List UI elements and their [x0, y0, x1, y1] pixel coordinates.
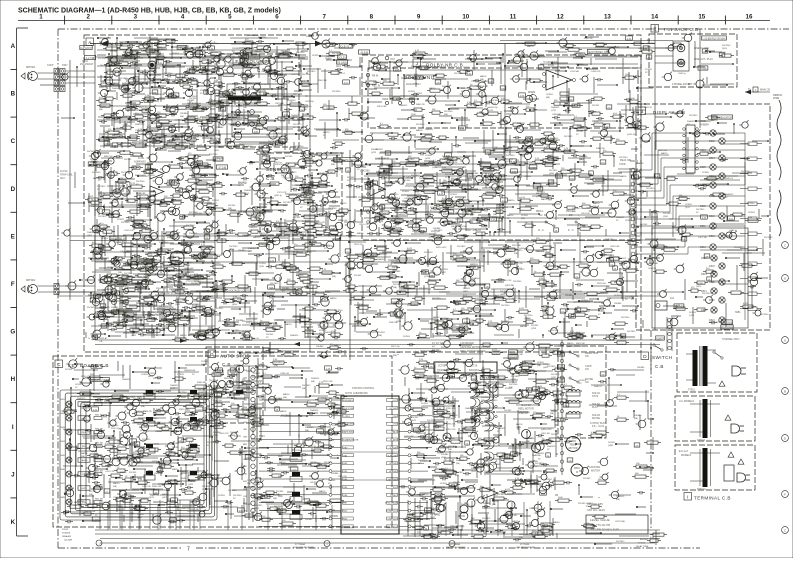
svg-text:MA150: MA150: [113, 482, 120, 485]
resistor: [535, 142, 543, 145]
svg-text:2.2K: 2.2K: [270, 260, 275, 262]
resistor: [436, 74, 444, 77]
CON6 pin: [631, 175, 635, 179]
svg-text:3.3K: 3.3K: [437, 408, 442, 410]
node: [115, 279, 117, 281]
capacitor: [345, 64, 347, 67]
wire: [144, 69, 146, 81]
motor connector pin: [560, 393, 563, 396]
svg-text:R540 1µ: R540 1µ: [434, 417, 442, 419]
node: [373, 62, 375, 64]
svg-text:2SC2240: 2SC2240: [178, 392, 187, 394]
node: [521, 147, 523, 149]
IC701 pin name boxes: [343, 399, 354, 402]
resistor: [613, 115, 621, 118]
svg-text:K: K: [11, 519, 16, 526]
svg-text:1S1555: 1S1555: [177, 374, 185, 376]
wire: [98, 116, 130, 118]
resistor: [257, 102, 267, 105]
wire: [163, 304, 165, 328]
svg-text:MA150: MA150: [246, 145, 253, 148]
resistor: [154, 201, 162, 204]
bus junction arrows: [180, 339, 186, 343]
vertical bus x95: [94, 44, 96, 341]
svg-text:2SC1815: 2SC1815: [293, 124, 302, 126]
svg-text:MA150: MA150: [516, 423, 523, 426]
wire: [378, 170, 380, 192]
transistor: [129, 78, 136, 85]
wire: [405, 204, 407, 214]
svg-text:2SD880: 2SD880: [392, 267, 400, 269]
svg-text:6.8K: 6.8K: [248, 115, 253, 117]
wire: [413, 211, 446, 213]
terminal block lower outline: [675, 445, 755, 490]
pin jack level box: [702, 36, 727, 40]
transformer FT551 secondary: [703, 346, 708, 386]
node: [497, 133, 499, 135]
dolby top wires: [370, 61, 500, 63]
svg-text:2SC1815: 2SC1815: [627, 331, 636, 333]
wire: [136, 240, 138, 262]
wire: [134, 67, 136, 88]
wire: [622, 58, 624, 84]
transistor: [482, 109, 488, 115]
value label: [90, 298, 96, 302]
svg-text:2SD880: 2SD880: [433, 228, 441, 230]
wire: [284, 133, 286, 150]
resistor: [290, 103, 301, 106]
wire: [136, 53, 138, 70]
wire: [529, 147, 559, 149]
resistor: [219, 94, 228, 97]
svg-text:2SC2240: 2SC2240: [296, 52, 305, 54]
CON6 pin: [631, 182, 635, 186]
capacitor: [416, 189, 418, 192]
wire: [122, 83, 147, 85]
grid row tick: [11, 164, 18, 166]
wire: [351, 96, 353, 103]
wire: [400, 161, 419, 163]
svg-text:MA150: MA150: [637, 162, 644, 165]
wire: [427, 205, 429, 218]
wire: [630, 55, 641, 57]
node: [456, 119, 458, 121]
svg-text:2.2K: 2.2K: [521, 197, 526, 199]
border chain bottom right: [196, 547, 700, 549]
resistor: [425, 135, 432, 138]
wire: [163, 127, 165, 148]
svg-text:1S1555: 1S1555: [247, 480, 255, 482]
wire: [212, 189, 214, 197]
resistor: [407, 211, 415, 214]
wire: [334, 47, 352, 49]
wire: [88, 294, 116, 296]
resistor: [202, 120, 212, 123]
node: [295, 54, 297, 56]
svg-text:RB2 10K: RB2 10K: [95, 414, 104, 416]
wire: [595, 179, 622, 181]
svg-text:100K: 100K: [277, 143, 282, 145]
wire: [104, 164, 106, 183]
resistor: [576, 53, 585, 56]
resistor: [443, 204, 454, 207]
capacitor: [244, 51, 246, 54]
wire: [170, 243, 200, 245]
svg-text:2SC1815: 2SC1815: [97, 186, 106, 188]
wire: [299, 64, 301, 70]
svg-text:1S1555: 1S1555: [75, 384, 83, 386]
capacitor: [368, 196, 370, 199]
capacitor: [134, 166, 136, 169]
transistor: [498, 160, 506, 168]
wire: [621, 109, 646, 111]
CON6 pin: [631, 196, 635, 200]
svg-text:T-PRG: T-PRG: [343, 416, 350, 418]
mute detector bus: [95, 261, 640, 263]
wire: [166, 104, 168, 111]
keyboard bottom drops: [107, 505, 109, 530]
svg-text:Q517: Q517: [685, 207, 691, 209]
block letter D: [641, 352, 649, 360]
svg-text:2SC1815: 2SC1815: [547, 292, 556, 294]
line in bus wire: [500, 40, 673, 42]
svg-text:R475 0.022: R475 0.022: [436, 247, 447, 249]
resistor: [593, 178, 604, 181]
svg-text:R524 100K: R524 100K: [156, 288, 167, 290]
wire: [230, 37, 260, 39]
node: [151, 86, 153, 88]
wire: [270, 65, 272, 74]
wire: [107, 185, 124, 187]
bottom harness wire 4: [100, 542, 655, 544]
block letter G: [208, 350, 216, 358]
wire: [104, 237, 106, 256]
capacitor: [485, 208, 487, 211]
wire: [234, 114, 243, 116]
svg-text:0.022: 0.022: [118, 178, 124, 180]
svg-text:2SC945: 2SC945: [491, 100, 499, 102]
svg-text:2SC1815: 2SC1815: [616, 541, 625, 543]
IC701 pin 1 left: [332, 399, 341, 401]
svg-text:1S1555: 1S1555: [149, 93, 157, 95]
svg-text:2SC945: 2SC945: [276, 491, 284, 493]
warning triangle t1: [728, 452, 734, 457]
node: [147, 100, 149, 102]
svg-text:C667 33K: C667 33K: [275, 103, 285, 105]
transistor QY04: [507, 501, 515, 509]
keyboard LED D847: [66, 485, 72, 491]
resistor: [157, 251, 166, 254]
transistor: [125, 171, 132, 178]
svg-text:3.3K: 3.3K: [176, 297, 181, 299]
wire: [478, 179, 496, 181]
capacitor: [99, 176, 101, 179]
wire: [186, 108, 198, 110]
svg-text:2SC2240: 2SC2240: [509, 384, 518, 386]
value label: [112, 143, 118, 147]
value label: [157, 60, 164, 64]
capacitor: [258, 98, 260, 101]
connector CON8: [54, 284, 59, 289]
capacitor: [634, 111, 636, 114]
FT301J wires: [690, 403, 703, 405]
capacitor: [209, 61, 211, 64]
svg-text:3CT700BL: 3CT700BL: [520, 544, 530, 546]
wire: [400, 95, 432, 97]
svg-text:15: 15: [698, 14, 705, 21]
svg-text:1S1555: 1S1555: [546, 94, 554, 96]
wire: [375, 158, 397, 160]
resistor: [120, 46, 128, 49]
wire: [151, 42, 153, 53]
svg-text:2SD880: 2SD880: [216, 127, 224, 129]
svg-text:(9B): (9B): [99, 109, 103, 111]
svg-text:C549 4.7K: C549 4.7K: [236, 112, 246, 114]
svg-text:1S1555: 1S1555: [425, 155, 433, 157]
wire: [302, 113, 304, 136]
warning triangle t2: [738, 459, 744, 464]
capacitor: [352, 43, 354, 46]
svg-text:Q493 33K: Q493 33K: [505, 285, 515, 287]
capacitor: [434, 207, 436, 210]
resistor: [106, 47, 117, 50]
svg-text:6.8K: 6.8K: [254, 131, 259, 133]
svg-text:100K: 100K: [269, 287, 274, 289]
svg-text:100K: 100K: [302, 114, 307, 116]
node: [288, 116, 290, 118]
circled net B: [782, 388, 789, 395]
svg-text:VDD: VDD: [392, 416, 397, 418]
IC701 pin 25 right: [399, 454, 408, 456]
wire: [570, 145, 591, 147]
capacitor: [194, 66, 196, 69]
svg-text:D848: D848: [60, 497, 66, 499]
logic gate U7-1: [470, 388, 480, 397]
svg-text:2SD880: 2SD880: [634, 415, 642, 417]
svg-text:0.1: 0.1: [574, 116, 578, 118]
wire: [204, 166, 213, 168]
wire: [249, 95, 272, 97]
wire: [106, 137, 130, 139]
grid row tick: [11, 211, 18, 213]
keyboard LED D842: [66, 415, 72, 421]
svg-text:R512 47µ: R512 47µ: [111, 428, 121, 430]
leaf switch D955: [569, 351, 571, 353]
svg-text:R992 1µ: R992 1µ: [211, 43, 219, 45]
svg-text:0.022: 0.022: [519, 308, 525, 310]
transistor: [197, 203, 204, 210]
wire: [568, 88, 570, 113]
IC701 right pin harness: [411, 399, 424, 401]
node: [470, 58, 472, 60]
value label: [156, 123, 162, 127]
value label: [457, 218, 463, 222]
wire: [151, 135, 179, 137]
svg-text:X2: X2: [207, 445, 210, 447]
wire: [194, 300, 215, 302]
wire: [590, 130, 620, 132]
svg-text:2.2K: 2.2K: [415, 430, 420, 432]
svg-text:1S1555: 1S1555: [586, 503, 594, 505]
IC802 pin: [683, 154, 686, 157]
IC701 pin 9 left: [332, 462, 341, 464]
MSRM coil: [530, 95, 537, 102]
value label: [189, 69, 195, 73]
transistor: [548, 135, 554, 141]
CON6 pin: [631, 245, 635, 249]
resistor: [286, 67, 293, 70]
wire: [123, 57, 138, 59]
svg-text:Q709: Q709: [213, 435, 219, 437]
capacitor: [213, 102, 215, 105]
svg-text:HEAD PB/REC AMP: HEAD PB/REC AMP: [587, 51, 609, 54]
wire: [269, 70, 302, 72]
wire: [370, 132, 392, 134]
LED D809: [710, 203, 716, 209]
node: [305, 135, 307, 137]
svg-text:2SA1015: 2SA1015: [526, 437, 535, 440]
keyboard LED D843: [66, 429, 72, 435]
svg-text:2SA1015: 2SA1015: [484, 470, 493, 473]
svg-text:2.2K: 2.2K: [99, 136, 104, 138]
wire: [109, 206, 123, 208]
svg-text:R413 47µ: R413 47µ: [489, 107, 499, 109]
svg-text:2SC2240: 2SC2240: [444, 111, 453, 113]
resistor: [131, 185, 142, 188]
wire: [613, 156, 615, 167]
value label: [646, 55, 652, 59]
leaf switch D957: [569, 377, 571, 379]
op-amp A701: [482, 487, 498, 499]
node: [451, 117, 453, 119]
svg-text:RESET: RESET: [343, 526, 351, 528]
svg-text:(9B): (9B): [331, 164, 335, 166]
resistor: [219, 102, 229, 105]
svg-text:MA150: MA150: [433, 316, 440, 319]
svg-text:Q411: Q411: [471, 281, 477, 283]
resistor: [411, 116, 422, 119]
wire: [389, 172, 421, 174]
wire: [301, 50, 308, 52]
wire: [110, 60, 140, 62]
reverse mode box: [91, 377, 110, 381]
resistor: [414, 76, 423, 79]
wire: [306, 113, 308, 115]
dolby pin VCC: [385, 56, 389, 60]
svg-text:6.8K: 6.8K: [214, 80, 219, 82]
wire: [153, 138, 155, 148]
svg-text:2SC1815: 2SC1815: [623, 261, 632, 263]
svg-text:(9B): (9B): [593, 206, 597, 208]
capacitor: [219, 106, 221, 109]
transistor: [182, 191, 189, 198]
wire: [132, 141, 161, 143]
svg-text:2SA1015: 2SA1015: [207, 131, 216, 134]
capacitor: [502, 174, 504, 177]
wire: [122, 90, 135, 92]
FT301U core: [699, 449, 701, 486]
svg-text:6.8K: 6.8K: [538, 386, 543, 388]
svg-text:BA10003: BA10003: [469, 369, 480, 372]
node: [523, 56, 525, 58]
node: [180, 251, 182, 253]
svg-text:ON: ON: [585, 355, 589, 358]
LED wire: [636, 133, 710, 170]
svg-text:OB0: OB0: [343, 447, 348, 449]
node: [97, 37, 99, 39]
wire: [333, 139, 359, 141]
keyboard resistor D845: [94, 458, 102, 461]
resistor: [408, 224, 419, 227]
block letter H: [262, 156, 270, 164]
resistor: [193, 53, 200, 56]
svg-text:2SC2240: 2SC2240: [124, 273, 133, 275]
wire: [556, 172, 558, 187]
svg-text:D845: D845: [60, 455, 66, 457]
svg-text:4.7K: 4.7K: [109, 212, 114, 214]
node: [572, 195, 574, 197]
node: [159, 320, 161, 322]
svg-text:MA150: MA150: [243, 103, 250, 106]
capacitor: [636, 75, 638, 78]
svg-text:100K: 100K: [208, 327, 213, 329]
svg-text:0.022: 0.022: [534, 186, 540, 188]
svg-text:R661 10K: R661 10K: [576, 343, 586, 345]
svg-text:1S1555: 1S1555: [145, 253, 153, 255]
resistor: [133, 153, 141, 156]
node: [143, 129, 145, 131]
svg-text:4.7K: 4.7K: [388, 264, 393, 266]
svg-text:R321 6.8K: R321 6.8K: [377, 106, 387, 108]
svg-text:(9B): (9B): [456, 463, 460, 465]
wire: [105, 65, 130, 67]
svg-text:F: F: [11, 281, 15, 288]
wire: [160, 87, 162, 102]
wire: [162, 141, 186, 143]
svg-text:2SC2240: 2SC2240: [332, 91, 341, 93]
node: [474, 140, 476, 142]
wire: [94, 235, 96, 250]
svg-text:H MODEL ONLY: H MODEL ONLY: [722, 338, 740, 341]
wire: [126, 250, 143, 252]
wire: [629, 90, 631, 111]
node: [417, 57, 419, 59]
svg-text:2SC2240: 2SC2240: [121, 222, 130, 224]
transistor: [540, 138, 546, 144]
resistor: [194, 255, 202, 258]
IC701 pin 32 right: [399, 510, 408, 512]
svg-text:33K: 33K: [582, 203, 586, 205]
svg-text:2SD880: 2SD880: [305, 519, 313, 521]
dolby -36.5dB box: [358, 50, 369, 54]
wire: [445, 104, 455, 106]
svg-text:2SC945: 2SC945: [576, 131, 584, 133]
node: [403, 134, 405, 136]
wire: [414, 136, 424, 138]
svg-text:1S1555: 1S1555: [579, 380, 587, 382]
wire: [200, 135, 215, 137]
line out bus wire: [560, 47, 677, 49]
transistor: [163, 166, 170, 173]
resistor: [106, 97, 113, 100]
svg-text:2SA1015: 2SA1015: [550, 409, 559, 412]
svg-text:R851 0.01: R851 0.01: [711, 282, 721, 284]
svg-text:1S1555: 1S1555: [300, 204, 308, 206]
svg-text:2SD880: 2SD880: [331, 473, 339, 475]
bus arrow left: [101, 41, 108, 47]
svg-text:Q632: Q632: [254, 508, 260, 510]
resistor: [642, 50, 652, 53]
